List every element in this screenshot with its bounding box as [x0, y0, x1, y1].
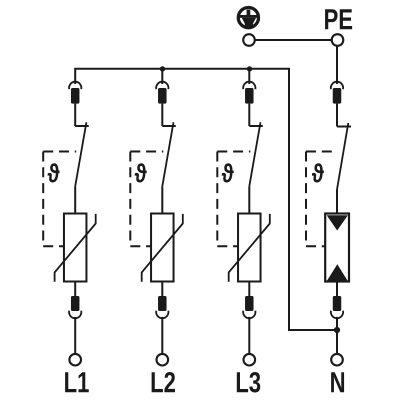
disconnect element bottom N — [333, 296, 342, 311]
disconnect element bottom L1 — [71, 296, 80, 311]
wire L1 — [74, 186, 76, 213]
wire L1 — [74, 104, 76, 126]
disconnect contact arc top N — [331, 82, 343, 90]
varistor box L1 — [64, 214, 86, 282]
thermal disconnect dashed box L2 — [130, 152, 163, 247]
switch contact tick L3 — [249, 125, 262, 127]
disconnect element bottom L2 — [158, 296, 167, 311]
disconnect contact arc bottom L2 — [156, 311, 168, 319]
switch blade N — [337, 123, 348, 190]
thermal disconnect dashed box L1 — [43, 152, 76, 247]
label PE — [325, 9, 352, 29]
node N junction — [334, 327, 340, 333]
wire PE down to N branch — [336, 40, 338, 84]
disconnect contact arc bottom L1 — [69, 311, 81, 319]
disconnect element bottom L3 — [245, 296, 254, 311]
GDT bottom electrode triangle — [327, 264, 347, 280]
disconnect element top L3 — [245, 88, 254, 104]
theta label L3 — [222, 163, 234, 182]
label N — [331, 372, 344, 392]
wire L3 — [248, 317, 250, 354]
disconnect element top L2 — [158, 88, 167, 104]
disconnect element top L1 — [71, 88, 80, 104]
wire earth terminal to PE terminal — [249, 39, 337, 41]
wire L1 — [74, 282, 76, 297]
switch contact tick N — [337, 126, 351, 128]
wire N — [336, 317, 338, 354]
wire L3 — [248, 282, 250, 297]
wire L2 — [161, 186, 163, 213]
wire N — [336, 190, 338, 215]
disconnect contact arc top L1 — [69, 82, 81, 90]
wire L2 top — [161, 69, 163, 84]
earth terminal — [243, 34, 255, 46]
label L2 — [152, 372, 175, 392]
wire L1 — [74, 317, 76, 354]
wire N — [336, 104, 338, 127]
wire L3 — [248, 186, 250, 213]
top bus wire — [75, 69, 337, 330]
label L1 — [65, 372, 89, 392]
varistor box L2 — [151, 214, 174, 282]
label L3 — [237, 372, 260, 393]
earth symbol circle — [238, 8, 258, 28]
wire L3 — [248, 104, 250, 126]
switch blade L3 — [249, 122, 260, 186]
wire L3 top — [248, 69, 250, 84]
switch contact tick L1 — [75, 125, 89, 127]
terminal N — [331, 354, 343, 366]
thermal disconnect dashed box L3 — [217, 152, 250, 247]
theta label L2 — [135, 163, 147, 182]
disconnect contact arc bottom L3 — [243, 311, 255, 318]
terminal L2 — [157, 354, 169, 366]
GDT top electrode triangle — [327, 215, 348, 230]
disconnect element top N — [333, 88, 342, 104]
wire L2 — [161, 104, 163, 126]
wire L2 — [161, 317, 163, 354]
varistor diagonal L2 — [142, 214, 183, 282]
thermal disconnect dashed box N — [306, 152, 336, 247]
disconnect contact arc bottom N — [331, 311, 343, 319]
gas discharge tube box N — [325, 214, 349, 282]
switch blade L2 — [162, 122, 173, 186]
disconnect contact arc top L3 — [243, 82, 255, 89]
varistor diagonal L3 — [229, 214, 270, 282]
theta label L1 — [48, 163, 60, 182]
wire L2 — [161, 282, 163, 297]
varistor diagonal L1 — [55, 214, 96, 282]
switch contact tick L2 — [162, 125, 176, 127]
wire N — [336, 282, 338, 297]
PE terminal — [332, 34, 344, 46]
node L2 bus junction — [160, 66, 165, 71]
switch blade L1 — [75, 122, 86, 186]
disconnect contact arc top L2 — [156, 82, 168, 90]
node L3 bus junction — [247, 66, 252, 71]
terminal L1 — [69, 354, 81, 366]
theta label N — [312, 163, 324, 182]
varistor box L3 — [238, 214, 260, 282]
terminal L3 — [244, 354, 256, 366]
